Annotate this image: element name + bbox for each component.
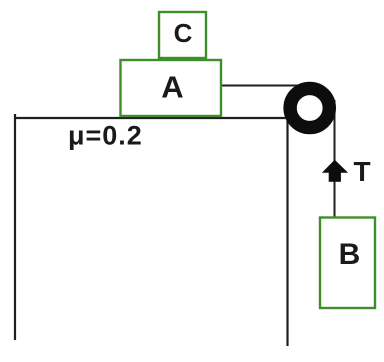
- block C: [159, 12, 206, 58]
- table right leg: [286, 118, 288, 346]
- block A: [121, 60, 222, 116]
- svg-text:C: C: [174, 18, 193, 48]
- svg-text:B: B: [339, 238, 361, 271]
- block B: [320, 218, 375, 309]
- svg-text:μ=0.2: μ=0.2: [68, 120, 143, 150]
- svg-text:A: A: [161, 70, 183, 105]
- tension arrow T: [322, 160, 348, 182]
- svg-text:T: T: [354, 156, 371, 187]
- table top surface: [14, 117, 288, 119]
- rope from pulley down to block B: [334, 100, 336, 217]
- rope from block A to pulley: [221, 85, 305, 87]
- pulley: [290, 88, 329, 127]
- table left leg: [14, 114, 16, 340]
